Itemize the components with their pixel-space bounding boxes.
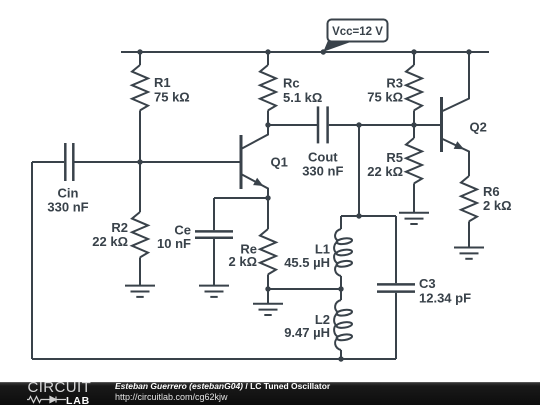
svg-text:2 kΩ: 2 kΩ [229, 254, 258, 269]
resistor R5 [406, 138, 422, 183]
svg-text:22 kΩ: 22 kΩ [367, 164, 403, 179]
wire Ce bottom lead [213, 239, 215, 286]
inductor L1 [334, 229, 352, 276]
wire R3 top lead [413, 52, 415, 65]
resistor R2 [132, 212, 148, 257]
svg-text:Cin: Cin [58, 186, 79, 201]
node Q1 collector [265, 122, 270, 127]
svg-text:R1: R1 [154, 75, 171, 90]
wire Re top lead [267, 198, 269, 229]
wire C3 top lead [395, 216, 397, 283]
wire mid riser [358, 125, 360, 216]
wire R1 top lead [139, 52, 141, 65]
wire emitter row [214, 197, 268, 199]
wire R2 top lead [139, 162, 141, 212]
resistor Rc [260, 65, 276, 110]
node Q2 collector top [466, 49, 471, 54]
node L2 bottom [338, 356, 343, 361]
inductor L2 [334, 300, 352, 350]
transistor Q1 bar [240, 135, 243, 189]
capacitor C3 plates [377, 283, 415, 286]
svg-text:12.34 pF: 12.34 pF [419, 291, 471, 306]
label R5 22 kOhm [367, 150, 403, 179]
node Rc top [265, 49, 270, 54]
footer bar [0, 382, 540, 405]
svg-text:10 nF: 10 nF [157, 236, 191, 251]
wire L2 top lead [340, 289, 342, 300]
svg-text:330 nF: 330 nF [47, 200, 88, 215]
node base Q1 [137, 159, 142, 164]
svg-text:R3: R3 [386, 76, 403, 91]
label C3 12.34 pF [419, 276, 471, 306]
wire R6 bottom lead [468, 221, 470, 247]
footer credit line [115, 382, 330, 391]
wire collector row right [329, 124, 414, 126]
wire tank top row [341, 215, 396, 217]
resistor R6 [461, 176, 477, 221]
capacitor Cout plates [317, 106, 320, 143]
label R2 22 kOhm [92, 220, 128, 249]
transistor Q2 emitter arrow [454, 141, 464, 149]
capacitor Cin plates [64, 143, 67, 181]
label Q1 [271, 155, 288, 170]
node Vcc tap [321, 49, 326, 54]
label R1 75 kOhm [154, 75, 190, 105]
wire Re bottom lead [267, 274, 269, 289]
node tank top [356, 213, 361, 218]
transistor Q2 collector [442, 52, 470, 112]
wire base row Q1 [75, 161, 241, 163]
svg-text:330 nF: 330 nF [302, 164, 343, 179]
svg-text:R6: R6 [483, 184, 500, 199]
label L1 45.5 uH [284, 242, 330, 271]
label R6 2 kOhm [483, 184, 512, 213]
svg-text:45.5 µH: 45.5 µH [284, 255, 330, 270]
svg-text:Cout: Cout [308, 150, 338, 165]
wire L2 bottom lead [340, 350, 342, 359]
wire Rc bottom lead [267, 110, 269, 134]
resistor R1 [132, 65, 148, 110]
resistor R3 [406, 65, 422, 110]
svg-text:R5: R5 [386, 150, 403, 165]
transistor Q2 emitter [442, 139, 470, 177]
transistor Q2 bar [440, 97, 443, 152]
circuitlab logo text [28, 379, 92, 396]
node R1 top [137, 49, 142, 54]
ground Re [253, 304, 283, 315]
transistor Q1 emitter [241, 174, 268, 198]
wire C3 bottom lead [395, 293, 397, 359]
label Rc 5.1 kOhm [283, 76, 322, 106]
svg-text:Q1: Q1 [271, 155, 288, 170]
wire Rc top lead [267, 52, 269, 65]
wire Cin left [32, 161, 64, 163]
wire L1 bottom lead [340, 276, 342, 289]
svg-text:5.1 kΩ: 5.1 kΩ [283, 90, 322, 105]
wire collector row left [268, 124, 317, 126]
svg-text:75 kΩ: 75 kΩ [154, 90, 190, 105]
wire L1 top lead [340, 216, 342, 229]
wire Re to tank [268, 288, 341, 290]
svg-text:Vcc=12 V: Vcc=12 V [332, 26, 383, 38]
wire R5 bottom lead [413, 183, 415, 212]
transistor Q1 collector [241, 127, 268, 149]
node Re bottom [265, 286, 270, 291]
svg-text:9.47 µH: 9.47 µH [284, 325, 330, 340]
vcc callout pointer [323, 41, 352, 52]
wire R2 bottom lead [139, 257, 141, 285]
svg-text:C3: C3 [419, 276, 436, 291]
wire Re ground lead [267, 289, 269, 304]
label Cout 330 nF [302, 150, 343, 179]
svg-text:2 kΩ: 2 kΩ [483, 198, 512, 213]
wire top rail [121, 51, 489, 53]
node Cout right [356, 122, 361, 127]
wire left feedback riser [31, 162, 33, 359]
svg-text:22 kΩ: 22 kΩ [92, 234, 128, 249]
wire R3 bottom lead to node [413, 110, 415, 138]
node L1 L2 junction [338, 286, 343, 291]
label Q2 [470, 120, 487, 135]
resistor Re [260, 229, 276, 274]
node Q2 base [411, 122, 416, 127]
svg-text:75 kΩ: 75 kΩ [367, 90, 403, 105]
label Cin 330 nF [47, 186, 88, 215]
footer url [115, 392, 228, 402]
label Re 2 kOhm [229, 242, 258, 270]
node R3 top [411, 49, 416, 54]
wire Q2 base row [414, 124, 440, 126]
wire bottom feedback rail [32, 358, 396, 360]
ground R6 [454, 248, 484, 259]
svg-text:R2: R2 [111, 220, 128, 235]
label R3 75 kOhm [367, 76, 403, 105]
svg-text:Rc: Rc [283, 76, 300, 91]
wire R1 bottom lead [139, 110, 141, 162]
svg-text:Q2: Q2 [470, 120, 487, 135]
ground R5 [399, 213, 429, 224]
ground R2 [125, 286, 155, 297]
wire Ce top lead [213, 198, 215, 230]
transistor Q1 emitter arrow [253, 178, 263, 186]
label L2 9.47 uH [284, 312, 330, 340]
ground Ce [199, 286, 229, 297]
capacitor Ce plates [195, 230, 233, 233]
node Q1 emitter [265, 195, 270, 200]
vcc callout box Vcc=12 V [328, 20, 388, 42]
label Ce 10 nF [157, 223, 191, 252]
circuitlab logo doodle and LAB [27, 395, 67, 404]
